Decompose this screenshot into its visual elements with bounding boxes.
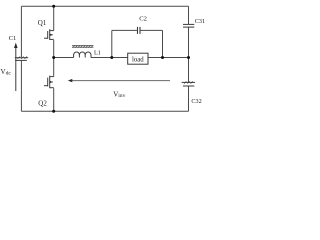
svg-text:Q1: Q1 xyxy=(38,19,47,27)
svg-text:C1: C1 xyxy=(9,35,17,42)
svg-text:L1: L1 xyxy=(94,50,101,57)
arrow Vinv xyxy=(71,80,171,82)
wire C2 branch left vertical xyxy=(111,30,113,57)
svg-text:C32: C32 xyxy=(191,98,201,105)
wire C2 branch right vertical xyxy=(162,30,164,57)
capacitor C31 xyxy=(183,24,194,27)
transistor Q1 arrow xyxy=(50,34,53,36)
node C2 branch left junction xyxy=(110,56,113,59)
wire bottom bus xyxy=(21,110,188,112)
transistor Q2 xyxy=(44,76,54,89)
wire Q1 drain from top bus xyxy=(53,6,55,30)
svg-text:load: load xyxy=(132,56,144,63)
capacitor C32 xyxy=(182,81,195,86)
load box xyxy=(128,53,148,64)
svg-text:C2: C2 xyxy=(139,15,147,22)
svg-text:C31: C31 xyxy=(195,18,205,25)
capacitor C2 xyxy=(138,27,141,34)
wire top bus xyxy=(21,5,188,7)
wire right rail middle xyxy=(188,27,190,82)
wire between Q1 and Q2 xyxy=(53,40,55,77)
svg-text:Vinv: Vinv xyxy=(113,90,125,99)
svg-text:Q2: Q2 xyxy=(38,99,47,107)
wire output node to inductor xyxy=(54,57,74,59)
node top junction xyxy=(52,5,55,8)
wire left rail upper xyxy=(20,6,22,57)
wire Q2 source to bottom bus xyxy=(53,88,55,111)
inductor L1 core xyxy=(72,45,93,48)
node C2 branch right junction xyxy=(161,56,164,59)
node right rail junction xyxy=(187,56,190,59)
transistor Q1 xyxy=(44,29,54,40)
wire left rail lower xyxy=(20,61,22,112)
wire right rail lower xyxy=(188,86,190,111)
capacitor C1 xyxy=(15,57,28,61)
wire inductor to load node xyxy=(91,57,128,59)
inductor L1 coil xyxy=(74,52,91,57)
arrow Vdc xyxy=(15,46,17,91)
wire C2 branch top right segment xyxy=(140,29,163,31)
node bottom junction xyxy=(52,110,55,113)
svg-text:Vdc: Vdc xyxy=(1,68,12,77)
wire C2 branch top left segment xyxy=(112,29,137,31)
transistor Q2 arrow xyxy=(50,81,53,83)
node output junction xyxy=(52,56,55,59)
wire load to C2 right node xyxy=(148,57,189,59)
wire right rail upper xyxy=(188,6,190,24)
